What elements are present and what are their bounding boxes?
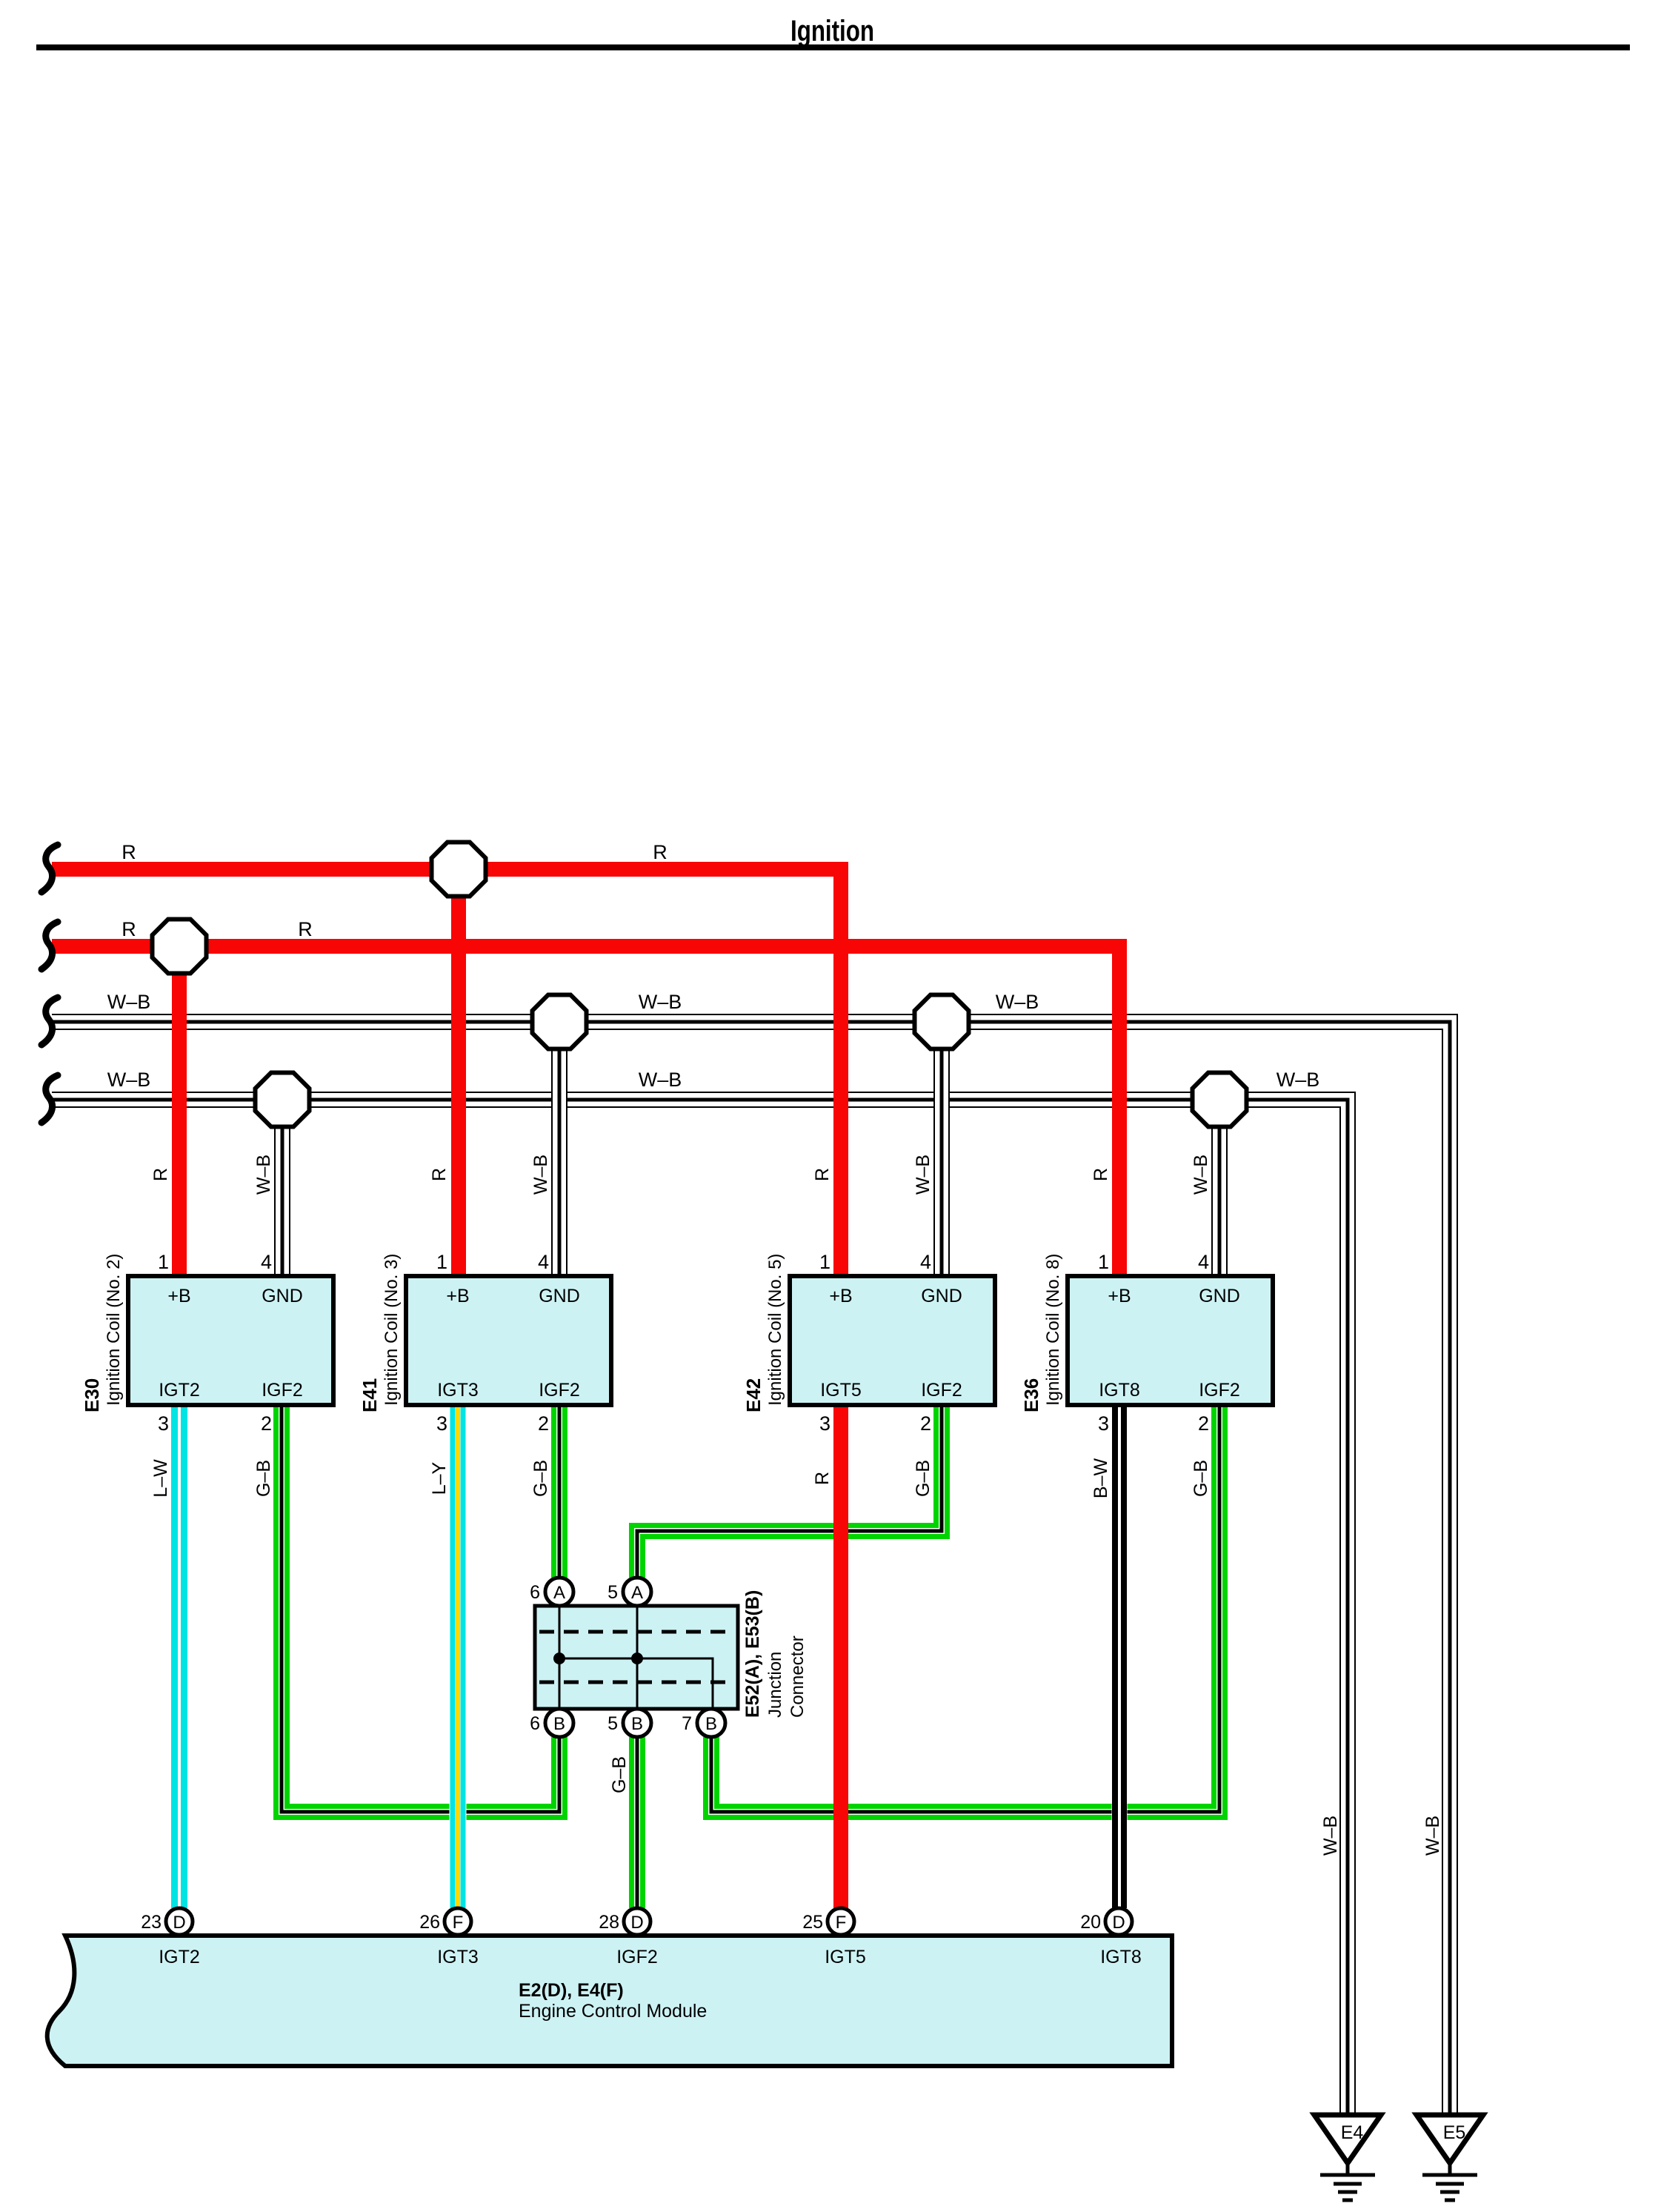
- svg-text:Ignition Coil (No. 5): Ignition Coil (No. 5): [765, 1254, 785, 1406]
- wire: R drop to E36 pin1: [1112, 946, 1127, 1276]
- break symbol R bus row2: [41, 922, 58, 969]
- svg-text:6: 6: [530, 1713, 540, 1734]
- svg-text:+B: +B: [829, 1286, 852, 1306]
- svg-text:W–B: W–B: [1276, 1069, 1320, 1091]
- svg-text:G–B: G–B: [253, 1460, 274, 1497]
- ignition coil E30 box: [128, 1276, 333, 1405]
- svg-text:Connector: Connector: [788, 1635, 808, 1718]
- svg-text:F: F: [836, 1913, 847, 1933]
- svg-text:4: 4: [538, 1251, 549, 1273]
- wire: R drop to E42 pin1: [833, 869, 848, 1276]
- ECM terminal D28 IGF2: [624, 1908, 650, 1935]
- svg-text:GND: GND: [539, 1286, 580, 1306]
- svg-text:G–B: G–B: [530, 1460, 551, 1497]
- Engine Control Module box: [47, 1936, 1172, 2066]
- ground E5 bars: [1422, 2173, 1477, 2177]
- svg-text:IGT5: IGT5: [825, 1947, 866, 1967]
- svg-text:3: 3: [436, 1412, 447, 1435]
- svg-text:R: R: [653, 841, 668, 863]
- svg-text:2: 2: [538, 1412, 549, 1435]
- svg-text:5: 5: [608, 1582, 618, 1603]
- svg-text:GND: GND: [921, 1286, 962, 1306]
- svg-text:W–B: W–B: [1191, 1155, 1211, 1195]
- wire: W-B branch to E36 pin4 GND: [1211, 1100, 1213, 1276]
- wire: L-W from E30 IGT2 to ECM terminal 23: [171, 1405, 188, 1908]
- svg-text:F: F: [453, 1913, 464, 1933]
- svg-text:E42: E42: [742, 1378, 765, 1412]
- wire: G-B from E42 IGF2 to junction A5: [632, 1405, 936, 1578]
- svg-text:L–W: L–W: [150, 1459, 171, 1498]
- junction connector E52(A), E53(B) box: [535, 1606, 738, 1709]
- junction octagon on R bus row2 (tap to coil No.2 +B): [153, 920, 207, 974]
- ignition coil E41 box: [406, 1276, 611, 1405]
- svg-text:Junction: Junction: [765, 1652, 785, 1718]
- junction terminal B6: [545, 1709, 573, 1737]
- svg-text:IGT5: IGT5: [820, 1380, 862, 1401]
- junction connector dashed bus upper: [539, 1630, 733, 1634]
- svg-text:28: 28: [599, 1912, 619, 1933]
- svg-text:E41: E41: [359, 1378, 381, 1412]
- svg-text:1: 1: [1098, 1251, 1109, 1273]
- svg-text:Ignition: Ignition: [790, 15, 874, 47]
- svg-text:R: R: [298, 918, 313, 940]
- svg-text:W–B: W–B: [530, 1155, 551, 1195]
- svg-text:R: R: [150, 1168, 171, 1181]
- wire: W-B branch white backing x=381: [274, 1100, 290, 1276]
- ground E4 bars: [1320, 2173, 1375, 2177]
- svg-text:IGT3: IGT3: [437, 1947, 479, 1967]
- svg-text:26: 26: [419, 1912, 440, 1933]
- break symbol R bus row1: [41, 845, 58, 892]
- wire: W-B branch to E41 pin4 GND: [551, 1022, 553, 1276]
- svg-text:Ignition Coil (No. 2): Ignition Coil (No. 2): [104, 1254, 124, 1406]
- svg-text:W–B: W–B: [107, 991, 151, 1013]
- svg-text:W–B: W–B: [107, 1069, 151, 1091]
- svg-text:E36: E36: [1020, 1378, 1042, 1412]
- svg-text:IGF2: IGF2: [616, 1947, 658, 1967]
- svg-text:5: 5: [608, 1713, 618, 1734]
- svg-text:7: 7: [682, 1713, 692, 1734]
- svg-text:GND: GND: [1199, 1286, 1240, 1306]
- svg-text:+B: +B: [1108, 1286, 1131, 1306]
- svg-text:W–B: W–B: [639, 1069, 682, 1091]
- svg-text:IGF2: IGF2: [539, 1380, 580, 1401]
- wire: W-B bus row4 (to ground E4): [52, 1092, 1355, 2115]
- wire: W-B branch to E30 pin4 GND: [274, 1100, 276, 1276]
- svg-text:R: R: [122, 841, 136, 863]
- svg-text:Ignition Coil (No. 8): Ignition Coil (No. 8): [1043, 1254, 1063, 1406]
- svg-text:IGT2: IGT2: [159, 1947, 200, 1967]
- junction internal node dot at A6 column: [553, 1653, 565, 1664]
- svg-text:D: D: [1112, 1913, 1125, 1933]
- svg-text:IGT2: IGT2: [159, 1380, 200, 1401]
- ground E4 stub: [1346, 2163, 1350, 2175]
- svg-text:IGT8: IGT8: [1100, 1947, 1142, 1967]
- svg-text:2: 2: [261, 1412, 272, 1435]
- svg-text:L–Y: L–Y: [429, 1461, 450, 1495]
- wire: R bus row1 (to Ignition Coil No.5 +B): [52, 869, 841, 1276]
- svg-text:E2(D), E4(F): E2(D), E4(F): [519, 1980, 624, 2001]
- wire: R branch to E30 pin1: [172, 946, 187, 1276]
- svg-text:W–B: W–B: [639, 991, 682, 1013]
- svg-text:4: 4: [261, 1251, 272, 1273]
- ECM terminal F25 IGT5: [828, 1908, 854, 1935]
- ground E5 triangle: [1417, 2115, 1483, 2163]
- svg-text:2: 2: [1198, 1412, 1209, 1435]
- svg-text:IGF2: IGF2: [921, 1380, 962, 1401]
- svg-text:A: A: [631, 1583, 643, 1603]
- junction octagon on W-B bus row4 (tap to coil No.8 GND): [1193, 1073, 1247, 1127]
- wire: B-W from E36 IGT8 to ECM terminal 20: [1112, 1405, 1128, 1908]
- svg-text:G–B: G–B: [1191, 1460, 1211, 1497]
- wire: W-B branch white backing x=1271: [933, 1022, 950, 1276]
- junction terminal A5: [623, 1578, 651, 1606]
- junction connector internal wire A5-B5: [636, 1606, 639, 1709]
- svg-text:Ignition Coil (No. 3): Ignition Coil (No. 3): [382, 1254, 402, 1406]
- svg-text:W–B: W–B: [1422, 1816, 1443, 1856]
- svg-text:G–B: G–B: [609, 1756, 630, 1793]
- svg-text:B: B: [553, 1714, 565, 1734]
- svg-text:3: 3: [158, 1412, 169, 1435]
- junction octagon on W-B bus row3 (tap to coil No.3 GND): [533, 995, 587, 1049]
- svg-text:W–B: W–B: [913, 1155, 933, 1195]
- svg-text:D: D: [630, 1913, 643, 1933]
- svg-text:+B: +B: [167, 1286, 190, 1306]
- wire: G-B from E41 IGF2 to junction A6: [551, 1405, 556, 1578]
- svg-text:GND: GND: [262, 1286, 303, 1306]
- svg-text:G–B: G–B: [913, 1460, 933, 1497]
- svg-text:A: A: [553, 1583, 565, 1603]
- svg-text:B–W: B–W: [1091, 1458, 1111, 1499]
- svg-text:IGT3: IGT3: [437, 1380, 479, 1401]
- svg-text:B: B: [631, 1714, 643, 1734]
- wire: G-B from E30 IGF2 to junction B6: [287, 1405, 554, 1807]
- svg-text:+B: +B: [446, 1286, 469, 1306]
- svg-text:4: 4: [1198, 1251, 1209, 1273]
- wire: W-B branch white backing x=755: [551, 1022, 567, 1276]
- svg-text:4: 4: [920, 1251, 931, 1273]
- junction terminal B7: [697, 1709, 725, 1737]
- svg-text:E4: E4: [1341, 2122, 1364, 2143]
- svg-text:3: 3: [1098, 1412, 1109, 1435]
- svg-text:R: R: [429, 1168, 450, 1181]
- wire: W-B bus row3 (to ground E5): [52, 1014, 1457, 2115]
- junction octagon on W-B bus row3 (tap to coil No.5 GND): [915, 995, 969, 1049]
- svg-text:23: 23: [141, 1912, 162, 1933]
- ECM terminal F26 IGT3: [445, 1908, 471, 1935]
- ignition coil E36 box: [1068, 1276, 1273, 1405]
- junction connector dashed bus lower: [539, 1681, 733, 1684]
- svg-text:W–B: W–B: [1320, 1816, 1341, 1856]
- wire: W-B branch white backing x=1646: [1211, 1100, 1228, 1276]
- ground E5 stub: [1448, 2163, 1452, 2175]
- svg-text:3: 3: [819, 1412, 830, 1435]
- wire: R bus row2 (to Ignition Coil No.8 +B): [52, 946, 1119, 1276]
- svg-text:1: 1: [436, 1251, 447, 1273]
- svg-text:IGF2: IGF2: [1199, 1380, 1240, 1401]
- wire: L-Y from E41 IGT3 to ECM terminal 26: [450, 1405, 467, 1908]
- ECM terminal D20 IGT8: [1105, 1908, 1132, 1935]
- junction terminal A6: [545, 1578, 573, 1606]
- svg-text:IGF2: IGF2: [262, 1380, 303, 1401]
- svg-text:R: R: [122, 918, 136, 940]
- svg-text:2: 2: [920, 1412, 931, 1435]
- ground E4 triangle: [1314, 2115, 1381, 2163]
- svg-text:E30: E30: [81, 1378, 103, 1412]
- svg-text:R: R: [812, 1472, 833, 1485]
- wire: W-B branch to E42 pin4 GND: [933, 1022, 935, 1276]
- junction octagon on W-B bus row4 (tap to coil No.2 GND): [256, 1073, 310, 1127]
- junction terminal B5: [623, 1709, 651, 1737]
- wire: G-B from junction B5 to ECM IGF2 terminal 28: [629, 1737, 634, 1908]
- svg-text:25: 25: [802, 1912, 823, 1933]
- svg-text:W–B: W–B: [253, 1155, 274, 1195]
- wire: R branch to E41 pin1: [451, 869, 466, 1276]
- svg-text:Engine Control Module: Engine Control Module: [519, 2001, 707, 2022]
- svg-text:R: R: [812, 1168, 833, 1181]
- svg-text:1: 1: [819, 1251, 830, 1273]
- svg-text:W–B: W–B: [996, 991, 1039, 1013]
- svg-text:D: D: [173, 1913, 185, 1933]
- svg-text:20: 20: [1080, 1912, 1101, 1933]
- junction internal node dot at A5 column: [631, 1653, 643, 1664]
- svg-text:1: 1: [158, 1251, 169, 1273]
- junction octagon on R bus row1 (tap to coil No.3 +B): [432, 843, 486, 897]
- svg-text:B: B: [705, 1714, 717, 1734]
- junction connector internal wire to B7: [559, 1658, 713, 1709]
- svg-text:E52(A), E53(B): E52(A), E53(B): [742, 1590, 763, 1718]
- ignition coil E42 box: [790, 1276, 995, 1405]
- ECM terminal D23 IGT2: [166, 1908, 193, 1935]
- svg-text:IGT8: IGT8: [1099, 1380, 1140, 1401]
- break symbol W-B bus row4: [41, 1075, 58, 1123]
- wire: R from E42 IGT5 to ECM terminal 25: [833, 1405, 848, 1908]
- svg-text:E5: E5: [1443, 2122, 1466, 2143]
- title rule: [36, 44, 1630, 50]
- svg-text:6: 6: [530, 1582, 540, 1603]
- wire: G-B from junction B7 to E36 IGF2: [717, 1405, 1214, 1807]
- break symbol W-B bus row3: [41, 997, 58, 1045]
- svg-text:R: R: [1091, 1168, 1111, 1181]
- junction connector internal wire A6-B6: [559, 1606, 561, 1709]
